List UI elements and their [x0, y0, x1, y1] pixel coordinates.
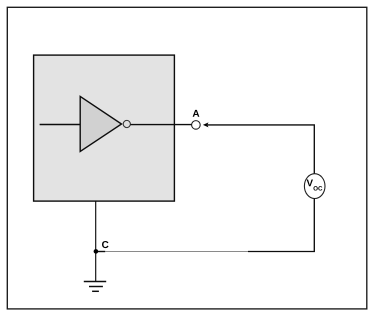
wire: voltmeter to bottom-right corner	[248, 199, 314, 252]
wire: inverter input	[40, 124, 81, 126]
voltmeter VOC	[304, 174, 325, 199]
node A (open terminal)	[192, 121, 201, 130]
inverter U1 triangle	[80, 96, 121, 151]
node C junction dot	[94, 249, 99, 254]
IC package body	[34, 55, 175, 201]
wire: bottom run into node C	[96, 251, 106, 253]
wire: node A to top-right corner	[207, 125, 315, 174]
wire: bubble to node A	[131, 124, 192, 126]
arrowhead at node A	[203, 122, 209, 127]
wire: bottom run (faded)	[105, 251, 248, 253]
ground symbol	[84, 282, 106, 292]
label C	[102, 241, 109, 248]
label A	[193, 110, 200, 117]
label VOC	[307, 180, 323, 191]
inverter output bubble	[123, 120, 130, 127]
wire: package to ground	[95, 201, 97, 281]
